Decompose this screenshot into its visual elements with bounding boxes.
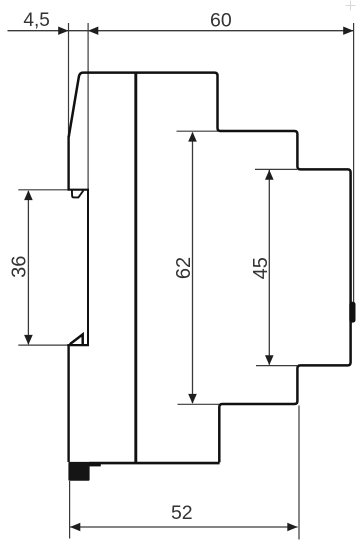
body front edge (upper, below slant) <box>67 136 69 190</box>
arrow down at y=365.3 (45 bottom) <box>265 355 274 365</box>
arrow down at y=344.8 (36 bottom) <box>24 335 33 345</box>
arrow left at x=87.6 (4,5 right / 60 left) <box>88 27 98 35</box>
extension line x=298.8 (52 right, below body step) <box>298 406 300 540</box>
dimension line 45 (vertical) <box>268 170 270 365</box>
extension line y=189.8 (36 top, to body ledge) <box>18 189 68 191</box>
svg-text:60: 60 <box>210 9 232 31</box>
dimension line 62 (vertical) <box>192 133 194 404</box>
svg-text:4,5: 4,5 <box>23 10 49 31</box>
front panel divider x=135.8 <box>134 72 137 462</box>
dimension line top (4,5 and 60) <box>8 30 354 32</box>
right edge bulge (seal tab) <box>349 302 355 323</box>
extension line y=131.2 (62 top, left of body step) <box>177 130 219 132</box>
bottom face small step right of foot <box>89 462 101 466</box>
extension line x=69.6 (52 left, below foot) <box>69 481 71 539</box>
extension line x=87.7 (back plane) <box>87 23 89 189</box>
dimension line 36 (left vertical) <box>27 191 29 344</box>
top DIN claw <box>72 190 84 197</box>
arrow up at y=190 (36 top) <box>24 190 33 200</box>
arrow left at x=70 (52 left) <box>70 523 80 531</box>
body outline right profile (top face and right steps) <box>69 73 351 463</box>
body ledge bottom (y=345.1) <box>68 344 89 346</box>
arrow up at y=131.5 (62 top) <box>188 132 197 142</box>
body ledge top (y=189.7) <box>68 189 90 191</box>
svg-text:45: 45 <box>250 257 272 279</box>
body front edge (lower) <box>67 344 69 462</box>
arrow right at x=352.7 (60 right) <box>343 27 353 35</box>
extension line y=169.4 (45 top, left of body step) <box>255 168 297 170</box>
faint watermark cross top-right <box>346 1 356 11</box>
extension line y=404.3 (62 bottom, left of body step) <box>178 403 220 405</box>
extension line y=365.6 (45 bottom, left of body step) <box>256 365 297 367</box>
extension line x=68.5 (front face) <box>68 23 70 136</box>
arrow right at x=68.6 (4,5 left) <box>58 27 68 35</box>
arrow up at y=169.7 (45 top) <box>265 170 274 180</box>
svg-text:36: 36 <box>8 256 30 278</box>
extension line x=352.7 (right face) <box>353 23 355 302</box>
svg-text:52: 52 <box>171 502 193 524</box>
arrow right at x=297.6 (52 right) <box>287 523 297 531</box>
arrow down at y=404 (62 bottom) <box>188 394 197 404</box>
extension line y=345.1 (36 bottom, to body ledge) <box>18 344 68 346</box>
bottom DIN claw (triangle) <box>70 334 83 344</box>
body bottom face <box>89 462 220 465</box>
body back recessed edge x=87.8 <box>87 190 89 346</box>
dimension line 52 (bottom horizontal) <box>70 526 298 528</box>
svg-text:62: 62 <box>173 257 195 279</box>
foot block (DIN clip slider) <box>68 462 89 481</box>
